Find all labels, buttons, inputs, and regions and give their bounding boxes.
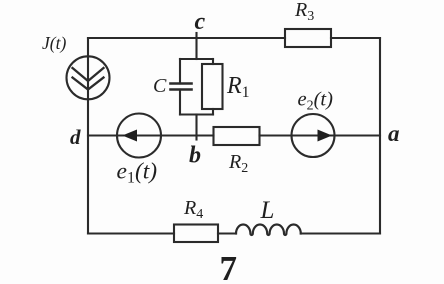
- voltage source E1 circle: [117, 114, 161, 158]
- wire middle right segment: [260, 134, 381, 136]
- wire right vertical: [379, 38, 381, 234]
- svg-text:d: d: [70, 125, 81, 149]
- resistor R4 box: [174, 225, 218, 243]
- wire R1 stub bottom: [212, 109, 214, 115]
- wire top left segment: [88, 37, 285, 39]
- wire middle left segment: [88, 134, 214, 136]
- wire bottom right segment: [301, 232, 380, 234]
- svg-text:e1(t): e1(t): [117, 159, 158, 187]
- svg-text:7: 7: [220, 249, 238, 284]
- wire left vertical: [87, 38, 89, 234]
- node c: [195, 33, 197, 38]
- resistor R1 box: [202, 64, 223, 109]
- voltage source E1 arrowhead: [122, 130, 137, 142]
- svg-text:a: a: [388, 121, 400, 146]
- resistor R3 box: [285, 29, 331, 47]
- wire bottom left segment: [88, 232, 174, 234]
- wire top right segment: [331, 37, 380, 39]
- resistor R2 box: [214, 127, 260, 145]
- capacitor C1 plate bottom: [171, 88, 192, 91]
- svg-text:c: c: [195, 9, 206, 35]
- wire node c to parallel group: [195, 38, 197, 59]
- svg-text:L: L: [260, 197, 275, 224]
- wire bottom mid segment: [218, 232, 236, 234]
- svg-text:e2(t): e2(t): [298, 89, 334, 114]
- wire parallel bottom bar: [180, 113, 213, 115]
- svg-text:b: b: [189, 143, 201, 169]
- current source J1 chevron 1: [73, 68, 104, 81]
- wire capacitor branch lower: [179, 90, 181, 115]
- svg-text:J(t): J(t): [42, 33, 66, 53]
- wire capacitor branch upper: [179, 59, 181, 84]
- capacitor C1 plate top: [171, 82, 192, 85]
- current source J1 chevron 2: [73, 78, 104, 90]
- wire parallel top bar: [180, 58, 213, 60]
- svg-text:C: C: [153, 75, 167, 97]
- inductor L coil: [236, 225, 301, 236]
- wire R1 stub top: [212, 59, 214, 64]
- wire parallel group to node b: [195, 115, 197, 140]
- current source J1 circle: [67, 56, 110, 99]
- voltage source E2 circle: [292, 114, 335, 157]
- voltage source E2 arrowhead: [318, 130, 333, 142]
